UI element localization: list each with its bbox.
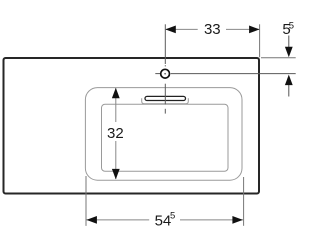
dim 54^5 extension left (85, 176, 87, 226)
faucet hole (161, 69, 170, 78)
dim 32 line (115, 88, 117, 122)
dim 54^5 line (86, 219, 149, 221)
overflow recess base (142, 98, 189, 104)
dim 33 line (165, 28, 197, 30)
svg-text:5: 5 (170, 211, 175, 222)
dim 5^5 top extension (261, 57, 296, 59)
dim 33 arrow right (249, 26, 260, 34)
vertical center line (faucet axis) (164, 24, 166, 64)
dim 33 extension line right (259, 24, 261, 57)
svg-text:32: 32 (107, 125, 124, 142)
overflow slot (145, 96, 186, 100)
svg-text:5: 5 (289, 20, 294, 31)
inner bowl (102, 104, 229, 171)
svg-text:33: 33 (204, 21, 221, 38)
dim 32 arrow up (112, 88, 120, 99)
dim 33 arrow left (165, 26, 176, 34)
countertop outline (4, 58, 260, 194)
svg-text:54: 54 (155, 213, 172, 230)
dim 32 arrow down (112, 169, 120, 180)
dim 54^5 extension right (243, 177, 245, 226)
dim 54^5 arrow left (86, 216, 97, 224)
horizontal center line (faucet axis) (155, 73, 160, 75)
dim 54^5 arrow right (232, 216, 243, 224)
dim 5^5 down arrow (288, 36, 290, 49)
dim 5^5 up arrow (288, 84, 290, 97)
basin rim (85, 88, 242, 181)
